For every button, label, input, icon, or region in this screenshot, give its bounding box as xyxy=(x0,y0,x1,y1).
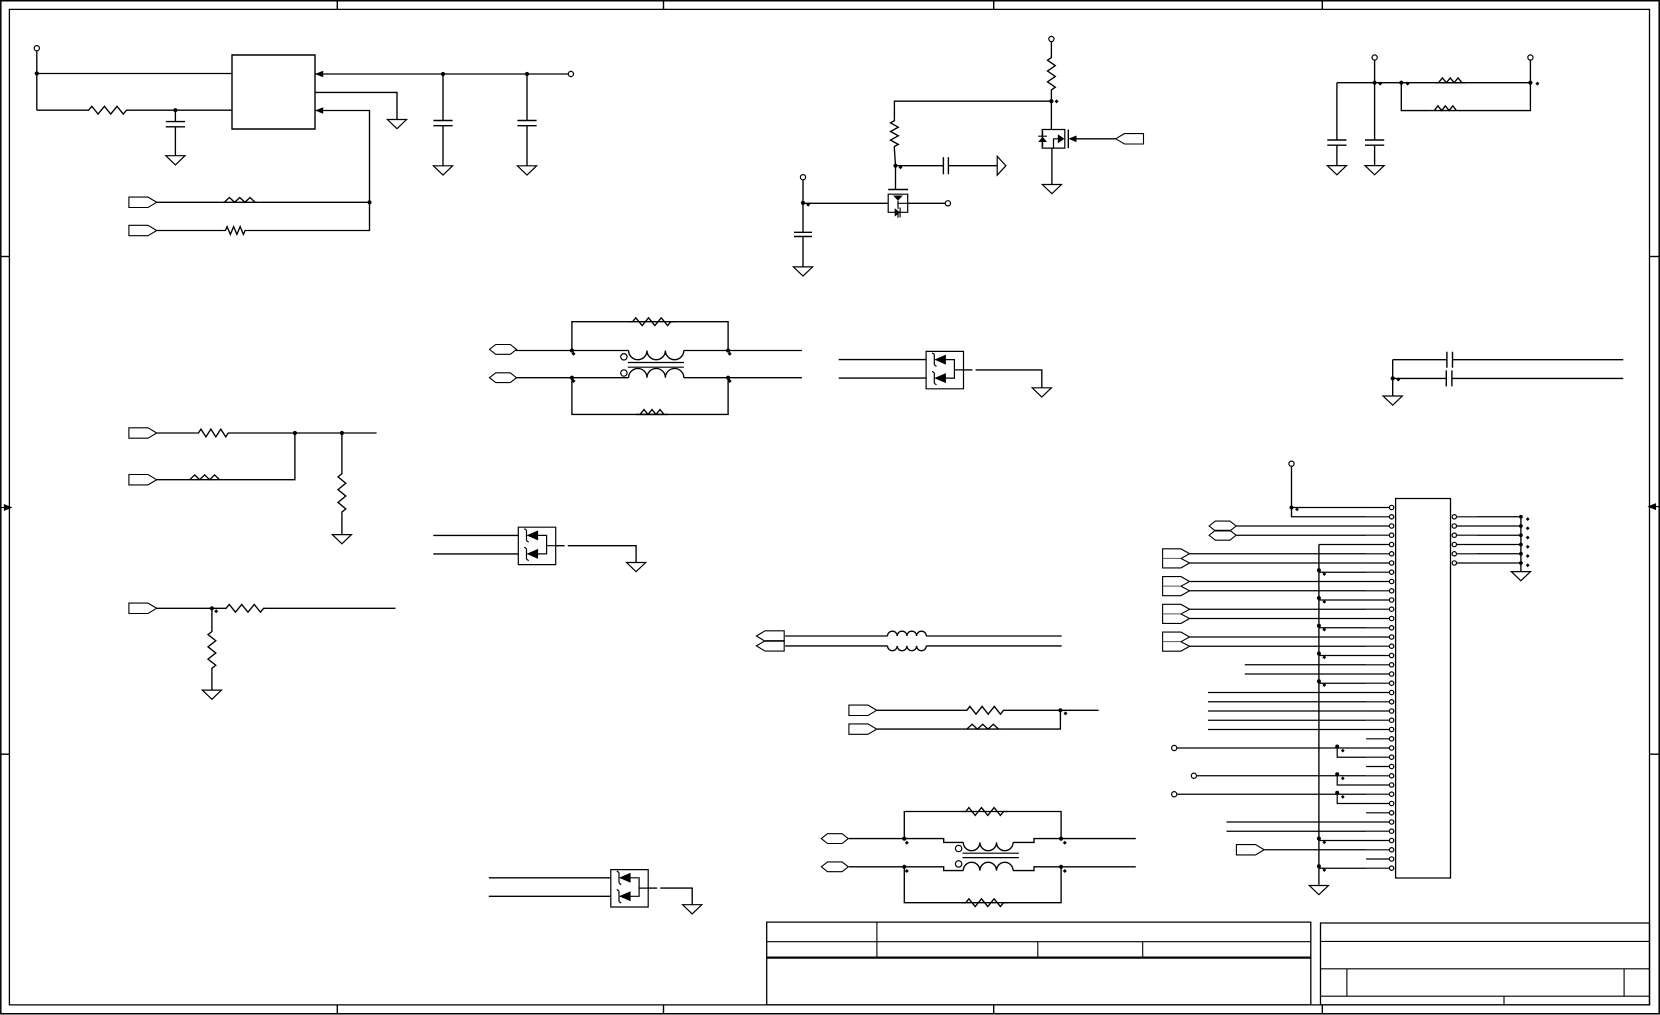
wire R2 to flag xyxy=(157,201,221,203)
resistor R9 xyxy=(636,410,668,415)
wire D2 common pin xyxy=(556,545,565,547)
wire R11 up to node1 xyxy=(224,433,295,480)
wire bus stub to pin 19 xyxy=(1319,682,1366,684)
wire C1p to R15 xyxy=(877,709,963,711)
port flag A2 xyxy=(129,475,157,485)
resistor R10 xyxy=(195,429,231,437)
transformer TX2 core xyxy=(963,853,1019,857)
junction diamond TR1 xyxy=(1378,82,1382,86)
junction feedback node xyxy=(367,200,371,204)
junction bus row 13 xyxy=(1317,624,1321,628)
wire output node B to C3 xyxy=(526,74,528,121)
wire R16 up to RB node xyxy=(1003,710,1061,729)
junction diamond TX2-d xyxy=(1063,869,1067,873)
wire TX1 top out xyxy=(728,350,802,352)
wire net to pin 23 xyxy=(1208,719,1366,721)
wire P2 to node xyxy=(517,377,572,379)
resistor R6 xyxy=(1435,78,1467,83)
capacitor C2 xyxy=(433,121,452,126)
wire right pin row 2 xyxy=(1476,525,1521,527)
resistor R3 xyxy=(223,227,247,235)
junction TR2 xyxy=(1399,81,1403,85)
junction diamond J13 xyxy=(1341,795,1345,799)
border zone tick left y=754.2 xyxy=(1,753,10,755)
diode array D2 box xyxy=(518,527,555,564)
terminal J8 xyxy=(1289,461,1294,466)
junction diamond right row 4 xyxy=(1526,545,1530,549)
junction J12 node xyxy=(1335,772,1339,776)
resistor R12 xyxy=(338,470,346,516)
resistor R14 xyxy=(208,628,216,672)
wire D3 line1 xyxy=(489,877,611,879)
wire Q2 source to ground xyxy=(1051,148,1053,184)
wire J8 node to pin0 xyxy=(1292,507,1367,509)
junction right bus row 3 xyxy=(1519,533,1523,537)
junction diamond bus row 13 xyxy=(1322,628,1326,632)
wire output node A to C2 xyxy=(442,74,444,121)
terminal J4 xyxy=(945,201,950,206)
ground of D2 xyxy=(627,563,646,572)
wire FP3 bottom to pin xyxy=(1190,618,1367,620)
zener diode in D1 at y=359.59999999999997 xyxy=(934,355,946,365)
wire B1 to L1 xyxy=(785,635,887,637)
wire J12 to pin 29 xyxy=(1197,775,1367,777)
polarity dot TX2 primary xyxy=(955,845,961,851)
wire C3 to ground xyxy=(526,126,528,166)
transistor Q2 source link xyxy=(1054,139,1059,148)
junction TX2 right bottom xyxy=(1059,865,1063,869)
resistor R7 xyxy=(1430,106,1460,111)
polarity dot TX1 secondary xyxy=(621,370,627,376)
ground below C3 xyxy=(517,166,536,175)
capacitor C9 xyxy=(1446,370,1452,386)
border zone tick bottom x=337.3 xyxy=(336,1005,338,1014)
wire TX1 bottom parallel loop xyxy=(572,378,728,415)
transistor Q2 gate plate xyxy=(1067,130,1069,149)
wire N2 to C4 xyxy=(896,165,944,167)
wire TX2 top out xyxy=(1061,838,1136,840)
wire net to pin 17 xyxy=(1245,664,1366,666)
title block left table xyxy=(767,922,1311,1005)
wire C2 to ground xyxy=(442,126,444,166)
junction TX1 right bottom xyxy=(726,376,730,380)
junction J11 node xyxy=(1335,745,1339,749)
regulator U1 xyxy=(232,55,315,129)
wire C5 to ground xyxy=(802,237,804,267)
junction bus row 7 xyxy=(1317,568,1321,572)
diode array D1 box xyxy=(926,351,963,388)
gate arrow Q2 xyxy=(1068,136,1076,143)
ground below C6 xyxy=(1327,166,1346,175)
wire D1 line1 xyxy=(839,359,926,361)
D1 internal link xyxy=(946,360,964,379)
transistor Q2 body diode xyxy=(1038,137,1047,142)
wire net to pin 20 xyxy=(1208,692,1366,694)
wire parallel branch R7 xyxy=(1401,83,1430,111)
port flag GATE xyxy=(1116,134,1144,144)
polarity dot TX1 primary xyxy=(621,354,627,360)
D2 internal link xyxy=(538,535,556,554)
wire FP1 top to pin xyxy=(1190,553,1367,555)
wire net to pin 24 xyxy=(1208,729,1366,731)
ground below R14 xyxy=(202,690,221,699)
wire R3 to flag xyxy=(157,230,224,232)
junction diamond N1 xyxy=(1055,99,1059,103)
wire Q2 gate lead xyxy=(1077,138,1116,140)
border zone tick left y=256.5 xyxy=(1,256,10,258)
wire net to pin 21 xyxy=(1208,701,1366,703)
wire net to pin 18 xyxy=(1245,673,1366,675)
wire L2 right xyxy=(926,645,1061,647)
junction at ADJ node xyxy=(173,108,177,112)
wire R12 to ground xyxy=(341,516,343,535)
wire TX2 primary out xyxy=(1013,839,1061,843)
inductor L2 xyxy=(888,646,927,651)
junction diamond N2 xyxy=(899,165,903,169)
ground left bus xyxy=(1309,886,1328,895)
wire bus stub to pin 7 xyxy=(1319,571,1366,573)
wire TX2 bottom out xyxy=(1061,866,1136,868)
wire U1 gnd pin xyxy=(315,92,397,119)
ground below R12 xyxy=(332,535,351,544)
border center arrow left xyxy=(1,505,11,510)
ground below C5 xyxy=(793,267,812,276)
wire J13 hook to pin 32 xyxy=(1337,794,1366,803)
wire J11 to pin 26 xyxy=(1177,747,1366,749)
capacitor C5 xyxy=(794,232,812,236)
wire CC top xyxy=(1393,359,1447,361)
inductor L1 xyxy=(888,631,927,636)
wire TX1 secondary out xyxy=(684,377,728,379)
border zone tick bottom x=663.5 xyxy=(663,1005,665,1014)
wire CC bottom right xyxy=(1452,377,1623,379)
bus flag B2 xyxy=(756,641,784,651)
junction right bus row 4 xyxy=(1519,543,1523,547)
wire right pin row 4 xyxy=(1476,544,1521,546)
wire P5 to pin2 xyxy=(1236,525,1366,527)
junction diamond right row 3 xyxy=(1526,536,1530,540)
wire bus stub to pin 13 xyxy=(1319,627,1366,629)
wire TX2 top parallel loop xyxy=(904,812,1061,839)
wire left bus vertical xyxy=(1318,545,1320,885)
wire net to pin 35 xyxy=(1227,830,1367,832)
wire TX2 primary lead xyxy=(904,839,963,843)
wire TX2 bottom parallel loop xyxy=(904,867,1061,903)
junction diamond TR2 xyxy=(1406,82,1410,86)
wire J6 down xyxy=(1374,60,1376,83)
border zone tick right y=256.5 xyxy=(1650,256,1660,258)
off-page connector arrow xyxy=(997,156,1006,175)
terminal J2 xyxy=(568,71,573,76)
wire J12 hook to pin 30 xyxy=(1337,776,1366,785)
wire C7 to ground xyxy=(1374,145,1376,165)
bus flag P4 xyxy=(821,862,848,872)
junction right bus row 1 xyxy=(1519,515,1523,519)
wire C6 to ground xyxy=(1336,145,1338,165)
wire R7 to node xyxy=(1461,83,1531,111)
wire top-right bus xyxy=(1337,82,1531,84)
zener diode in D1 at y=378.09999999999997 xyxy=(934,373,946,383)
junction TX1 right top xyxy=(726,348,730,352)
wire right pin row 5 xyxy=(1476,553,1521,555)
wire TX2 secondary lead xyxy=(904,867,963,871)
resistor R17 xyxy=(962,808,1008,816)
transformer TX2 secondary winding xyxy=(963,862,1013,870)
junction diamond TX2-a xyxy=(905,841,909,845)
wire node2 down to R12 xyxy=(341,433,343,470)
wire R15 right xyxy=(1008,709,1099,711)
capacitor C4 xyxy=(943,157,948,174)
port flag E1 xyxy=(1236,845,1264,855)
wire R1 to U1 ADJ xyxy=(131,109,232,111)
wire B2 to L2 xyxy=(785,645,887,647)
wire J8 to pins xyxy=(1292,466,1367,516)
wire TX1 top parallel loop xyxy=(572,322,728,351)
terminal J11 xyxy=(1172,745,1177,750)
resistor R2 xyxy=(220,198,259,203)
wire branch to C6 xyxy=(1336,83,1338,140)
junction bus row 16 xyxy=(1317,652,1321,656)
junction diamond TX1-d xyxy=(728,379,732,383)
wire J1 down xyxy=(36,51,38,110)
wire bus stub to pin 36 xyxy=(1319,840,1366,842)
resistor R11 xyxy=(186,475,224,480)
transistor Q1 channel line xyxy=(898,201,908,204)
junction diamond RB xyxy=(1064,711,1068,715)
wire lower to resistor R1 xyxy=(37,109,85,111)
wire D2 line1 xyxy=(433,534,518,536)
wire J13 to pin 31 xyxy=(1177,793,1366,795)
port flag pair FP1 xyxy=(1163,549,1190,568)
resistor R13 xyxy=(222,604,268,612)
wire L1 right xyxy=(926,635,1061,637)
junction diamond right row 5 xyxy=(1526,554,1530,558)
border zone tick top x=663.5 xyxy=(663,1,665,10)
wire R13 right xyxy=(268,607,396,609)
border zone tick right y=754.2 xyxy=(1650,753,1660,755)
wire J11 hook to pin 27 xyxy=(1337,748,1366,757)
port flag pair FP3 xyxy=(1163,604,1190,623)
junction RB node xyxy=(1058,708,1062,712)
wire node N1 left xyxy=(894,101,1051,118)
junction CC ground node xyxy=(1391,376,1395,380)
junction TR3 xyxy=(1528,81,1532,85)
wire FP2 bottom to pin xyxy=(1190,590,1367,592)
ground of CC pair xyxy=(1383,396,1402,405)
ground of D3 xyxy=(683,905,702,914)
transistor Q2 channel arrow xyxy=(1058,134,1065,143)
border zone tick top x=337.3 xyxy=(336,1,338,10)
junction diamond TX1-a xyxy=(572,352,576,356)
wire E1 to pin 37 xyxy=(1264,849,1366,851)
resistor R15 xyxy=(963,706,1008,714)
resistor R4 xyxy=(1048,55,1056,94)
junction diamond right row 6 xyxy=(1526,563,1530,567)
wire N1 to Q2 drain xyxy=(1050,101,1052,129)
wire A1 to R10 xyxy=(157,432,196,434)
resistor R1 xyxy=(85,106,131,114)
ground of D1 xyxy=(1032,388,1051,397)
junction Q1 source node xyxy=(801,201,805,205)
wire D1 line2 xyxy=(839,377,926,379)
junction at input node xyxy=(35,71,39,75)
wire A3 node down xyxy=(211,608,213,628)
terminal J5 xyxy=(800,175,805,180)
junction diamond bus row 10 xyxy=(1322,600,1326,604)
capacitor C1 xyxy=(166,122,185,127)
title block right table xyxy=(1321,923,1650,1005)
wire bus stub to pin 10 xyxy=(1319,599,1366,601)
bus flag P3 xyxy=(821,834,848,844)
junction output node B xyxy=(525,72,529,76)
junction J13 node xyxy=(1335,791,1339,795)
port flag A3 xyxy=(129,603,157,613)
terminal J3 xyxy=(1049,36,1054,41)
junction diamond bus row 39 xyxy=(1322,868,1326,872)
wire CC top right xyxy=(1453,359,1624,361)
junction diamond TX1-b xyxy=(572,379,576,383)
junction bus row 39 xyxy=(1317,864,1321,868)
terminal J1 xyxy=(34,46,39,51)
junction A node2 xyxy=(340,431,344,435)
wire U1 fb pin xyxy=(247,111,369,231)
junction diamond TX1-c xyxy=(728,352,732,356)
wire P3 to node xyxy=(849,838,904,840)
connector J10 body xyxy=(1396,499,1451,879)
transformer TX2 primary winding xyxy=(963,842,1013,850)
wire net to pin 34 xyxy=(1227,821,1367,823)
junction node N1 xyxy=(1049,99,1053,103)
border zone tick bottom x=993.7 xyxy=(993,1005,995,1014)
transistor Q2 body box xyxy=(1042,130,1065,149)
wire FP4 bottom to pin xyxy=(1190,645,1367,647)
connector J10 right pins xyxy=(1452,515,1456,519)
junction A3 node xyxy=(210,606,214,610)
wire CC bottom xyxy=(1393,377,1447,379)
port flag A1 xyxy=(129,428,157,438)
capacitor C7 xyxy=(1365,140,1384,145)
zener diode in D2 at y=553.9000000000001 xyxy=(527,549,539,559)
bus flag B1 xyxy=(756,631,784,641)
wire D2 line2 xyxy=(433,553,518,555)
resistor R5 xyxy=(891,118,899,149)
junction diamond bus row 19 xyxy=(1322,683,1326,687)
wire Q1 drain lead xyxy=(908,202,946,204)
wire CC corner xyxy=(1392,360,1394,379)
connector J10 left pins xyxy=(1366,507,1389,509)
zener diode in D3 at y=877.8000000000001 xyxy=(619,873,631,883)
bus flag P1 xyxy=(490,345,517,355)
wire FP4 top to pin xyxy=(1190,636,1367,638)
wire right pin row 6 xyxy=(1476,562,1521,564)
wire D1 to ground xyxy=(976,370,1042,388)
wire feedback to R2 xyxy=(259,201,369,203)
input arrow U1 pin5 xyxy=(315,107,323,114)
transformer TX1 primary winding xyxy=(629,351,684,360)
junction TX2 left bottom xyxy=(902,865,906,869)
junction diamond J11 xyxy=(1341,749,1345,753)
resistor R8 xyxy=(628,318,675,326)
junction diamond TR3 xyxy=(1535,82,1539,86)
junction A node1 xyxy=(293,431,297,435)
wire FP3 top to pin xyxy=(1190,608,1367,610)
wire R5 to node N2 xyxy=(894,149,895,166)
transistor Q1 gate bar xyxy=(888,189,908,191)
junction bus row 10 xyxy=(1317,596,1321,600)
wire D2 to ground xyxy=(568,546,636,563)
port flag C1p xyxy=(849,705,877,715)
junction diamond CC xyxy=(1396,378,1400,382)
junction diamond TX2-c xyxy=(1063,841,1067,845)
wire TX1 bottom out xyxy=(728,377,802,379)
wire TX1 primary lead xyxy=(572,350,629,352)
wire D1 common pin xyxy=(964,369,973,371)
junction J8 node xyxy=(1290,506,1294,510)
wire R10 to node xyxy=(232,432,377,434)
border zone tick bottom x=1322.3 xyxy=(1321,1005,1323,1014)
junction right bus row 2 xyxy=(1519,524,1523,528)
capacitor C3 xyxy=(517,121,536,126)
port flag pair FP4 xyxy=(1163,632,1190,651)
ground below Q2 xyxy=(1042,185,1061,194)
wire J3 to R4 xyxy=(1050,42,1052,55)
D3 internal link xyxy=(631,878,649,897)
transistor Q1 body diode xyxy=(895,208,900,216)
wire A3 to node xyxy=(157,607,222,609)
transformer TX1 core xyxy=(628,363,684,368)
wire bus stub to pin 16 xyxy=(1319,655,1366,657)
wire C2p to R16 xyxy=(877,728,963,730)
border zone tick top x=993.7 xyxy=(993,1,995,10)
wire right pin row 3 xyxy=(1476,534,1521,536)
wire C4 to off-page xyxy=(948,165,997,167)
wire bus stub to pin 39 xyxy=(1319,867,1366,869)
junction TR1 xyxy=(1373,81,1377,85)
terminal J13 xyxy=(1172,792,1177,797)
capacitor C6 xyxy=(1327,140,1346,145)
capacitor C8 xyxy=(1447,352,1453,368)
junction TX2 right top xyxy=(1059,837,1063,841)
border zone tick top x=1322.3 xyxy=(1321,1,1323,10)
wire right ground bus xyxy=(1520,517,1522,572)
bus flag P2 xyxy=(490,373,517,383)
zener diode in D3 at y=896.3000000000001 xyxy=(619,891,631,901)
wire FP1 bottom to pin xyxy=(1190,562,1367,564)
junction diamond bus row 36 xyxy=(1322,840,1326,844)
port flag C2p xyxy=(849,724,877,734)
junction bus row 19 xyxy=(1317,679,1321,683)
ground right bus xyxy=(1511,572,1530,581)
junction output node A xyxy=(441,72,445,76)
junction TX1 left top xyxy=(570,348,574,352)
bus flag P5 xyxy=(1209,521,1236,531)
wire ADJ node to capacitor C1 xyxy=(174,110,176,121)
terminal J12 xyxy=(1191,773,1196,778)
junction TX2 left top xyxy=(902,837,906,841)
ground below C1 xyxy=(166,156,185,165)
ground below C2 xyxy=(433,166,452,175)
junction right bus row 6 xyxy=(1519,561,1523,565)
junction diamond bus row 7 xyxy=(1322,572,1326,576)
diode array D3 box xyxy=(611,870,648,907)
wire TX2 secondary out xyxy=(1013,867,1061,871)
terminal J6 xyxy=(1372,55,1377,60)
border center arrow right xyxy=(1649,504,1659,509)
ground below C7 xyxy=(1365,166,1384,175)
wire Q1 source lead xyxy=(803,202,888,204)
resistor R16 xyxy=(963,724,1003,729)
junction diamond right row 1 xyxy=(1526,517,1530,521)
